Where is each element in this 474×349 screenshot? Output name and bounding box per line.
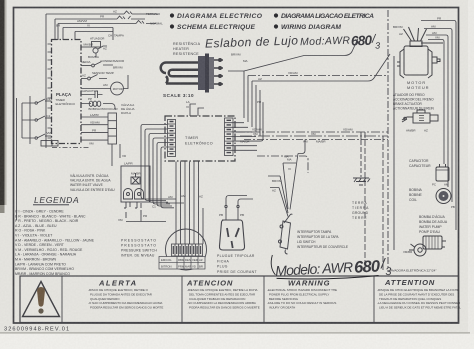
heater element R1: [161, 54, 223, 93]
contact condensador: [81, 65, 91, 67]
contact sensor: [81, 78, 87, 80]
brake actuator label: [393, 93, 435, 111]
warning texts: [88, 288, 461, 310]
lid switch S2: [279, 214, 293, 254]
warning strip box: [20, 276, 459, 323]
heater resistance labels: [173, 41, 201, 56]
handwritten model annotation bottom: [271, 249, 393, 284]
ground label: [352, 201, 369, 220]
legend: [15, 195, 95, 276]
bobina loop: [81, 104, 115, 110]
water inlet valve Y1: [121, 166, 150, 218]
valve terminals: [124, 202, 141, 208]
switch top 3: [136, 21, 144, 24]
motor M1: [111, 82, 124, 95]
connector right: [225, 118, 234, 156]
lid switch label: [297, 230, 348, 249]
board bottom dash bus: [52, 147, 90, 149]
board bottom pin connectors: [41, 141, 58, 147]
board PLACA timer electronico: [52, 40, 82, 144]
switch fuse top 2: [117, 16, 131, 19]
bus VD/AM upper: [248, 75, 388, 77]
wire top bus 4: [63, 27, 113, 29]
wire BR/VM diagonal to motor: [228, 39, 358, 72]
wire top bus 5: [75, 28, 113, 41]
relay atuador: [81, 46, 91, 48]
switch fuse top 1: [124, 11, 132, 14]
chassis boundary dash-dot: [388, 10, 394, 272]
drop to ground: [360, 132, 362, 140]
motor label: [407, 81, 429, 90]
timer top feed wires: [141, 104, 204, 208]
motor M2: [397, 27, 443, 78]
warning triangle: [23, 282, 60, 317]
solenoid 1: [124, 189, 133, 200]
pin header: [172, 244, 203, 256]
paper edge shadow line: [0, 332, 470, 334]
bottom bus under valve: [126, 215, 166, 222]
wire top bus 1: [46, 13, 160, 15]
wire from timer right pins: [233, 102, 263, 150]
wire left drop: [46, 14, 75, 148]
drops right: [364, 132, 366, 270]
bus MA lower: [257, 156, 308, 173]
solenoid 2: [135, 189, 144, 200]
wire labels top: [56, 10, 163, 38]
bullet 3: [170, 24, 174, 28]
motor wires to right: [421, 21, 456, 231]
wire top bus 2: [55, 18, 145, 20]
wire AZ to motor: [252, 54, 390, 81]
bullet 4: [274, 24, 278, 28]
plug label: [217, 254, 257, 274]
contact 3: [30, 134, 45, 138]
contact 2: [30, 116, 45, 120]
bullet 1: [170, 13, 174, 17]
connector left: [168, 120, 176, 157]
plug wire joins: [226, 196, 253, 206]
valve coil sym: [131, 177, 140, 184]
pressure switch S1: [159, 229, 207, 270]
component labels: [81, 37, 135, 146]
title block top right: [170, 13, 374, 31]
timer electronic module U2: [165, 116, 235, 161]
scanner dark strip left: [0, 0, 5, 205]
node ticks: [48, 44, 52, 138]
bundle verticals to pressostato: [141, 150, 161, 206]
bullet 2: [274, 13, 278, 17]
ground symbol: [353, 140, 370, 185]
connector strip J2: [108, 113, 117, 144]
bus group middle: [236, 131, 388, 133]
table: [159, 257, 205, 270]
capacitor sym: [81, 91, 103, 98]
coil L1: [436, 189, 451, 204]
lid switch feeds: [268, 140, 305, 217]
capacitor C1: [436, 164, 449, 181]
handwritten model annotation top: [205, 31, 381, 57]
wire bundle from timer left going down-left: [141, 125, 167, 157]
heater mounting bracket: [198, 56, 205, 90]
vertical feeders heater-timer: [244, 71, 260, 136]
switch block left of board: [22, 96, 52, 144]
vertical wires timer to pressostato: [164, 162, 203, 245]
wire left edge: [16, 98, 18, 220]
bus labels: [231, 53, 353, 193]
brake actuator K1: [402, 110, 438, 123]
water pump label: [419, 215, 448, 234]
capacitor label: [409, 159, 431, 168]
wires to valve: [112, 144, 120, 166]
warning titles: [98, 278, 435, 288]
component chain right of board: [81, 42, 128, 167]
valve label text: [70, 174, 115, 192]
pressure switch label: [121, 239, 157, 258]
plug P1: [219, 205, 244, 250]
contact 1: [30, 99, 45, 103]
water pump M3: [409, 236, 446, 256]
wire top bus 3: [58, 23, 156, 25]
coil label: [409, 188, 423, 202]
